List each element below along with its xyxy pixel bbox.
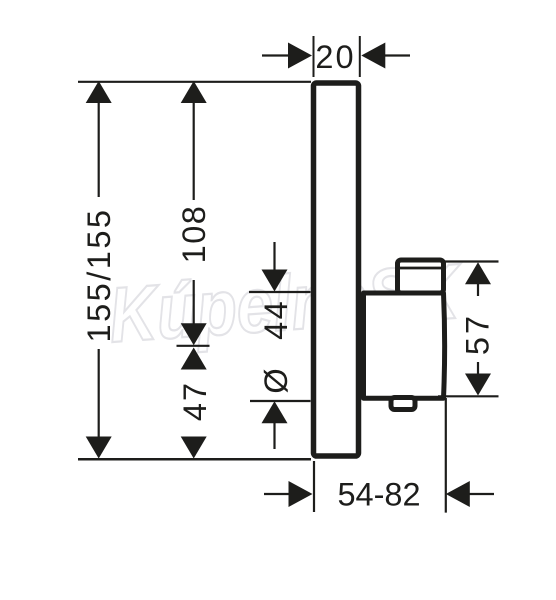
svg-text:54-82: 54-82 <box>337 476 420 512</box>
dim 20 right tail <box>385 54 410 56</box>
extension line bottom-left horizontal <box>78 458 311 461</box>
extension line vertical above plate left <box>313 36 315 77</box>
dim 57 top arrow <box>465 262 491 284</box>
dim 57 bottom arrow <box>465 374 491 396</box>
extension line 57 bottom <box>438 395 499 397</box>
dim 155 line lower <box>98 349 100 440</box>
svg-text:155/155: 155/155 <box>81 208 117 343</box>
dim 57 bottom tail <box>477 362 479 375</box>
dim 155 line upper <box>98 100 100 197</box>
dim 20 left tail <box>262 54 289 56</box>
dim 44 top tail <box>273 242 275 272</box>
extension line below handle right <box>445 398 447 513</box>
dim 44 bottom arrow <box>262 401 288 423</box>
dim 108 top arrow <box>181 81 207 103</box>
dim 54-82 right arrow <box>446 481 470 507</box>
extension line 57 top <box>444 260 499 262</box>
tick for dim108/47 <box>177 345 210 347</box>
svg-text:57: 57 <box>459 313 495 355</box>
handle top tab <box>398 260 444 293</box>
dim 47 bottom arrow <box>181 437 207 459</box>
tick for dim44 bottom <box>250 400 311 402</box>
extension line top-left horizontal <box>78 81 311 83</box>
dim 44 bottom tail <box>273 421 275 449</box>
dim 20 left arrow <box>288 43 312 69</box>
dim 155 bottom arrow <box>86 437 112 459</box>
dim 108 line upper <box>193 100 195 200</box>
dim 108 line lower <box>193 280 195 327</box>
handle bottom tab <box>391 398 415 410</box>
extension line below plate left <box>313 461 315 512</box>
svg-text:Ø: Ø <box>258 368 294 393</box>
extension line vertical above plate right <box>359 36 361 77</box>
dim 155 top arrow <box>86 81 112 103</box>
dim 47 top arrow <box>181 348 207 370</box>
handle body (knob side view) <box>364 293 445 398</box>
plate outline (side view of trim plate) <box>314 83 359 456</box>
svg-text:20: 20 <box>315 39 355 75</box>
tick for dim44 top <box>249 291 311 293</box>
svg-text:47: 47 <box>177 381 213 421</box>
svg-text:44: 44 <box>258 299 294 340</box>
dim 20 right arrow <box>361 43 385 69</box>
svg-text:108: 108 <box>176 205 212 264</box>
dim 108 bottom arrow <box>181 323 207 345</box>
dim 54-82 left tail <box>264 493 290 495</box>
dim 44 top arrow <box>262 270 288 292</box>
dim 54-82 right tail <box>469 493 494 495</box>
handle tab inner line <box>399 267 442 270</box>
dim 57 top tail <box>477 283 479 296</box>
dim 54-82 left arrow <box>289 481 313 507</box>
